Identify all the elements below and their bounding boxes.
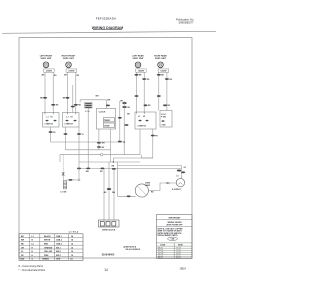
svg-text:16: 16 <box>71 251 73 253</box>
svg-text:WITH POWER OFF: WITH POWER OFF <box>167 224 184 226</box>
svg-text:WIRING DIAGRAM: WIRING DIAGRAM <box>92 26 123 30</box>
table cell values <box>20 235 74 261</box>
wire lamp to light <box>148 182 176 190</box>
surface unit LR terminal box <box>136 68 147 73</box>
surface unit LR coil symbol <box>135 62 141 68</box>
svg-text:OR: OR <box>120 101 123 103</box>
splice label on LF left lead <box>40 97 47 100</box>
wire switch A output drop <box>50 127 52 142</box>
plug connector P1 <box>85 103 92 113</box>
svg-text:GY: GY <box>184 167 187 169</box>
svg-text:RD: RD <box>56 105 59 107</box>
svg-text:ON ALL MODELS: ON ALL MODELS <box>125 248 141 251</box>
svg-text:BK: BK <box>63 98 66 100</box>
diagram border frame <box>19 38 192 259</box>
svg-text:SW-2: SW-2 <box>56 251 61 253</box>
svg-text:BK: BK <box>104 192 107 194</box>
info box <box>157 215 193 260</box>
svg-text:H1: H1 <box>51 117 53 119</box>
junction bus L1 riser B <box>123 141 125 143</box>
svg-text:RD: RD <box>169 79 172 81</box>
surface unit RF terminal box <box>66 68 77 73</box>
svg-text:TIMER: TIMER <box>104 120 111 122</box>
svg-text:SURF. UNIT: SURF. UNIT <box>63 58 75 60</box>
splice connector on RR left lead <box>157 95 161 97</box>
infinite switch RR (box D) <box>160 111 172 128</box>
svg-text:L1: L1 <box>32 236 34 238</box>
svg-text:CAB-1: CAB-1 <box>56 235 62 238</box>
connector stack lower on oven feed <box>122 106 130 109</box>
infinite switch LR (box C) <box>135 112 156 129</box>
surface unit LF terminal box <box>44 68 55 73</box>
svg-text:RD: RD <box>148 105 151 107</box>
svg-text:RD: RD <box>151 192 154 194</box>
svg-text:WH: WH <box>102 143 106 145</box>
clock and timer box <box>96 109 115 130</box>
connector clock lower right <box>118 141 122 143</box>
svg-text:BK: BK <box>112 166 115 168</box>
surface unit RF coil symbol <box>66 62 72 68</box>
wire LR left lead <box>136 72 138 112</box>
wire switch B output drop <box>65 127 67 150</box>
wire RF right lead <box>75 72 77 112</box>
wire light switch to node <box>67 162 80 181</box>
svg-text:IMPORTANT: IMPORTANT <box>169 216 182 219</box>
svg-text:BLACK: BLACK <box>44 235 51 238</box>
header publication number <box>176 18 194 25</box>
header model number FEF352BADA <box>96 17 117 21</box>
svg-text:PK: PK <box>53 132 56 134</box>
connector clock lower left upper <box>97 142 105 145</box>
bus broil <box>79 167 181 169</box>
surface unit RR label <box>154 55 167 61</box>
svg-text:2100W: 2100W <box>68 71 74 73</box>
svg-text:H1: H1 <box>143 116 145 118</box>
header separator rule <box>2 31 216 33</box>
svg-text:GND: GND <box>20 259 25 261</box>
wire to oven lamp <box>118 162 136 197</box>
wire LF right lead <box>52 72 54 112</box>
oven light switch hatched box <box>63 176 66 189</box>
svg-text:CAB-2: CAB-2 <box>56 239 62 242</box>
svg-text:16: 16 <box>71 247 73 249</box>
surface unit LF label <box>40 56 53 61</box>
bus bake <box>79 161 140 163</box>
connector below switch B right <box>77 133 85 136</box>
svg-text:03-95: 03-95 <box>176 258 181 260</box>
svg-text:L1: L1 <box>47 117 49 119</box>
connector on LR switch feed <box>144 104 152 107</box>
wire neutral riser left of plug <box>72 85 74 113</box>
connector on RF right lead <box>74 104 82 107</box>
svg-text:SURF. UNIT: SURF. UNIT <box>155 58 167 60</box>
svg-text:RD: RD <box>78 105 81 107</box>
see note text <box>122 246 141 252</box>
title WIRING DIAGRAM <box>92 26 123 30</box>
junction on bake bus <box>113 161 114 162</box>
svg-text:WH: WH <box>107 100 111 102</box>
bus L1 upper <box>51 141 125 143</box>
svg-text:L1 H1: L1 H1 <box>161 114 166 116</box>
svg-text:∞ SWITCH: ∞ SWITCH <box>137 126 147 128</box>
svg-text:CLOCK: CLOCK <box>99 112 106 114</box>
svg-text:BK: BK <box>40 98 43 100</box>
wire RF left lead <box>67 72 69 112</box>
oven light bulb <box>172 176 185 191</box>
bus L2 with node <box>60 153 140 162</box>
svg-text:LT.: LT. <box>177 176 180 178</box>
svg-text:* – Non-Illustrated Parts: * – Non-Illustrated Parts <box>19 269 46 272</box>
svg-text:YELLOW: YELLOW <box>44 251 52 253</box>
wire L1 riser to terminal block <box>103 169 105 220</box>
svg-text:SURF. UNIT: SURF. UNIT <box>41 58 53 60</box>
svg-text:L1: L1 <box>138 116 140 118</box>
svg-text:16: 16 <box>71 255 73 257</box>
infinite switch LF (box A) <box>43 113 60 128</box>
svg-text:OVEN: OVEN <box>104 125 110 127</box>
svg-text:YL: YL <box>82 134 85 136</box>
wire RR right lead <box>166 72 168 110</box>
wire plug riser <box>79 100 81 103</box>
infinite switch RF (box B) <box>63 113 80 128</box>
svg-text:LT. SW.: LT. SW. <box>61 191 68 193</box>
svg-text:5995380577: 5995380577 <box>179 21 194 25</box>
svg-text:# – Fast-moving Parts: # – Fast-moving Parts <box>19 265 44 268</box>
connector on RR right lead <box>165 78 173 81</box>
connector on N riser <box>104 188 116 194</box>
connector on riser B <box>125 124 129 126</box>
connector on RR left lead <box>157 74 165 77</box>
svg-text:REPLACEMENT PARTS.: REPLACEMENT PARTS. <box>158 234 179 237</box>
connector on clock drop <box>106 105 110 107</box>
switch C left return riser <box>139 129 141 155</box>
connector right riser <box>177 170 181 172</box>
svg-text:WH: WH <box>86 171 90 173</box>
svg-text:RD: RD <box>100 171 103 173</box>
svg-text:FF-06: FF-06 <box>158 258 163 260</box>
svg-text:OR: OR <box>127 107 130 109</box>
svg-text:DATE: DATE <box>178 243 184 246</box>
wire LF left lead <box>44 72 46 112</box>
svg-text:SW-3: SW-3 <box>56 255 61 257</box>
bus neutral <box>66 150 114 162</box>
wire LR right lead <box>143 72 145 112</box>
svg-text:WH: WH <box>96 96 100 98</box>
wire switch B second drop <box>78 127 80 162</box>
svg-text:RD: RD <box>168 105 171 107</box>
connector on LF right lead <box>51 104 59 107</box>
svg-text:H1: H1 <box>71 117 73 119</box>
svg-text:RIGHT REAR: RIGHT REAR <box>154 55 167 58</box>
power terminal block <box>99 220 120 227</box>
connector clock lower left lower <box>97 146 105 149</box>
svg-text:1250W: 1250W <box>138 71 144 73</box>
svg-text:BK: BK <box>127 114 130 116</box>
connector on neutral riser <box>71 106 75 108</box>
surface unit LR label <box>132 55 144 61</box>
fuse link symbol <box>61 155 65 176</box>
svg-text:L2: L2 <box>32 244 34 246</box>
connector far right with label <box>181 167 187 173</box>
svg-text:SURF. UNIT: SURF. UNIT <box>133 58 145 60</box>
svg-text:∞SW: ∞SW <box>161 125 166 127</box>
svg-text:BK: BK <box>139 75 142 77</box>
svg-text:FEF352BADA: FEF352BADA <box>96 17 117 21</box>
svg-text:L1: L1 <box>67 117 69 119</box>
connector on LR right lead <box>142 78 150 81</box>
bus lamp feed <box>118 165 182 178</box>
svg-text:14: 14 <box>104 268 108 272</box>
surface unit RR coil symbol <box>158 62 164 68</box>
svg-text:316048400: 316048400 <box>102 253 115 256</box>
junction blob on broil bus <box>112 166 116 170</box>
svg-text:TERM. BLOCK: TERM. BLOCK <box>102 230 116 232</box>
wire oven feed riser A <box>119 101 121 142</box>
svg-text:GRN: GRN <box>56 259 61 261</box>
svg-text:PK: PK <box>155 135 158 137</box>
oven indicator lamp <box>135 183 151 197</box>
svg-text:GREEN: GREEN <box>42 259 49 261</box>
svg-text:CSA: CSA <box>171 238 175 241</box>
surface unit RF label <box>62 56 76 61</box>
surface unit RR terminal box <box>158 68 169 73</box>
svg-text:RD: RD <box>147 79 150 81</box>
svg-text:RED: RED <box>44 244 49 246</box>
wire plug drop <box>87 108 89 168</box>
svg-text:BK: BK <box>161 75 164 77</box>
connector on RR switch feed <box>163 104 171 107</box>
splice label on RF left lead <box>63 97 70 100</box>
svg-text:LAMP: LAMP <box>145 184 151 187</box>
bus oven mid <box>113 157 153 159</box>
svg-text:A OVEN LT.: A OVEN LT. <box>172 188 182 191</box>
connector row ellipse 1 <box>77 168 81 170</box>
svg-text:LEFT REAR: LEFT REAR <box>132 55 144 58</box>
connector below switch A <box>49 131 57 134</box>
svg-text:PINK: PINK <box>44 255 49 257</box>
svg-text:BK: BK <box>42 75 45 77</box>
connector row ellipse 3 <box>100 168 104 173</box>
svg-text:WHITE: WHITE <box>44 240 51 242</box>
wire clock feed horizontal <box>80 99 106 101</box>
connector stack upper on oven feed <box>120 101 127 105</box>
connector on riser A <box>118 117 122 119</box>
wire clock bottom drops <box>99 129 111 162</box>
wire RR left lead <box>158 72 160 110</box>
wire oven feed riser B <box>123 101 125 155</box>
svg-text:SW-1: SW-1 <box>56 247 61 249</box>
svg-text:L1 N L2: L1 N L2 <box>69 231 79 233</box>
svg-text:◆ SEE NOTE A: ◆ SEE NOTE A <box>122 246 136 249</box>
svg-text:1250W: 1250W <box>160 71 166 73</box>
wire N riser to terminal block <box>108 162 110 220</box>
connector on switch C return <box>151 135 159 138</box>
svg-text:CAB-3: CAB-3 <box>56 243 62 246</box>
wire clock feed drop <box>105 100 107 109</box>
svg-text:P·SW: P·SW <box>161 117 166 119</box>
wire L2 riser to terminal block <box>113 169 115 220</box>
svg-text:ORANGE: ORANGE <box>44 246 53 249</box>
connector below switch B left <box>64 133 68 135</box>
connector on LR left lead <box>135 74 143 77</box>
svg-text:GB03: GB03 <box>180 267 187 270</box>
svg-text:∞ SWITCH: ∞ SWITCH <box>44 123 54 125</box>
connector row ellipse 2 <box>86 168 91 173</box>
wire color code table <box>19 234 83 261</box>
surface unit LF coil symbol <box>43 62 49 68</box>
switch C right return riser <box>142 129 153 158</box>
svg-text:BK: BK <box>64 75 67 77</box>
svg-text:2100W: 2100W <box>46 71 52 73</box>
svg-text:L1 N: L1 N <box>85 111 90 113</box>
splice connector on LR left lead <box>135 95 139 97</box>
svg-text:∞ SWITCH: ∞ SWITCH <box>64 123 74 125</box>
svg-text:RD: RD <box>77 75 80 77</box>
svg-text:RD: RD <box>54 75 57 77</box>
svg-text:WH: WH <box>112 192 116 194</box>
svg-text:BU: BU <box>102 147 105 149</box>
